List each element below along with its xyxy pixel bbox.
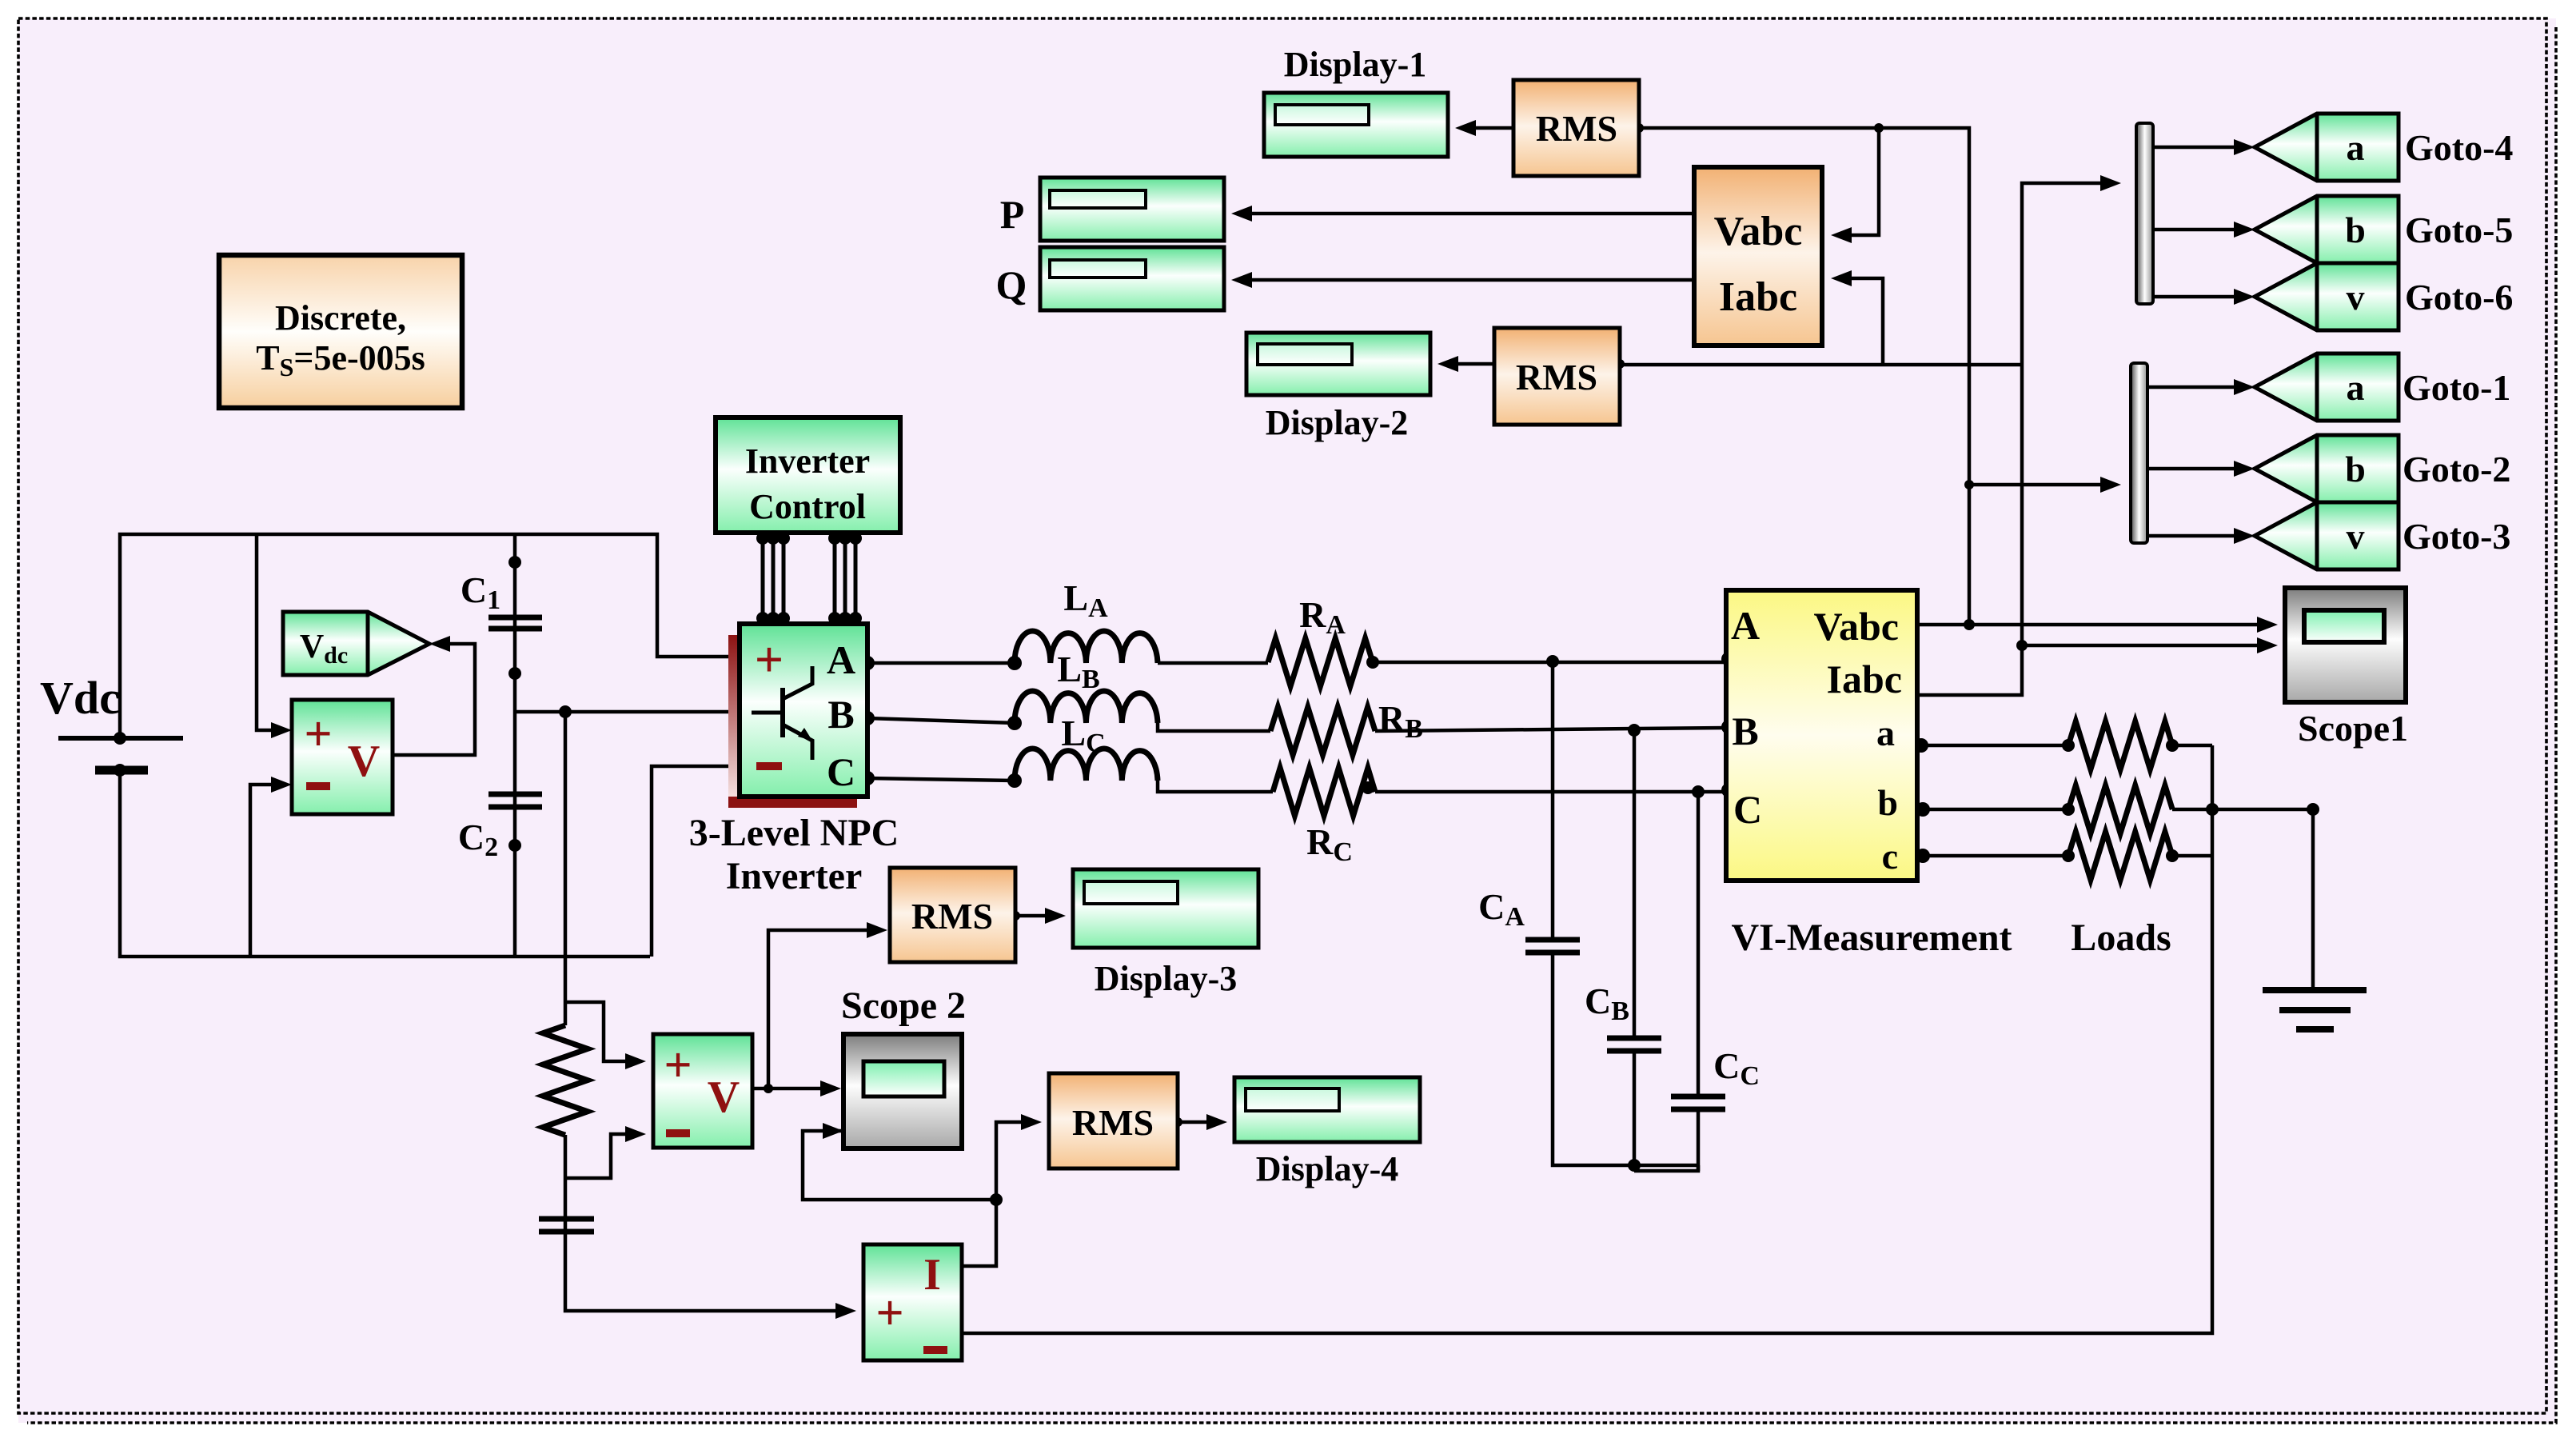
svg-text:Goto-2: Goto-2 <box>2403 449 2510 489</box>
svg-text:a: a <box>2347 367 2365 408</box>
svg-text:b: b <box>2345 210 2366 250</box>
svg-text:Goto-1: Goto-1 <box>2403 367 2510 408</box>
svg-text:P: P <box>1000 192 1025 237</box>
svg-text:Inverter: Inverter <box>726 855 863 897</box>
svg-text:+: + <box>875 1286 903 1340</box>
svg-text:+: + <box>304 707 332 761</box>
svg-text:Display-3: Display-3 <box>1095 959 1237 998</box>
svg-text:I: I <box>923 1250 941 1300</box>
svg-text:Loads: Loads <box>2071 917 2171 959</box>
svg-text:Iabc: Iabc <box>1719 274 1797 320</box>
svg-text:B: B <box>827 692 854 737</box>
svg-text:3-Level NPC: 3-Level NPC <box>689 812 899 854</box>
svg-text:Control: Control <box>749 487 866 526</box>
svg-text:Vabc: Vabc <box>1813 604 1899 649</box>
svg-text:V: V <box>348 737 380 786</box>
svg-text:VI-Measurement: VI-Measurement <box>1731 917 2012 959</box>
svg-text:Display-1: Display-1 <box>1284 45 1426 84</box>
svg-text:b: b <box>1877 782 1898 823</box>
svg-text:RMS: RMS <box>1536 108 1617 149</box>
svg-text:Q: Q <box>996 262 1027 307</box>
svg-text:a: a <box>1876 713 1895 753</box>
svg-text:Discrete,: Discrete, <box>275 298 406 338</box>
svg-text:RMS: RMS <box>911 896 993 937</box>
svg-text:+: + <box>755 631 784 688</box>
svg-text:Iabc: Iabc <box>1827 657 1902 701</box>
svg-text:Display-2: Display-2 <box>1266 403 1408 442</box>
svg-text:C: C <box>827 749 855 794</box>
svg-text:A: A <box>1731 603 1760 648</box>
svg-text:Scope1: Scope1 <box>2298 708 2408 749</box>
svg-text:v: v <box>2347 277 2365 318</box>
svg-text:Goto-3: Goto-3 <box>2403 516 2510 557</box>
svg-text:+: + <box>664 1038 692 1092</box>
svg-text:B: B <box>1732 709 1758 753</box>
svg-text:Goto-4: Goto-4 <box>2405 127 2513 168</box>
svg-text:RMS: RMS <box>1072 1102 1154 1143</box>
svg-text:Goto-5: Goto-5 <box>2405 210 2513 250</box>
svg-text:a: a <box>2347 127 2365 168</box>
svg-text:C: C <box>1733 787 1762 832</box>
svg-text:RMS: RMS <box>1516 357 1597 397</box>
svg-text:A: A <box>827 637 855 682</box>
svg-text:c: c <box>1882 836 1898 877</box>
svg-text:Goto-6: Goto-6 <box>2405 277 2513 318</box>
svg-text:Vabc: Vabc <box>1714 209 1803 254</box>
svg-text:v: v <box>2347 516 2365 557</box>
svg-text:Inverter: Inverter <box>745 441 870 481</box>
svg-text:Display-4: Display-4 <box>1256 1149 1398 1188</box>
svg-text:b: b <box>2345 449 2366 489</box>
svg-text:Vdc: Vdc <box>40 672 120 724</box>
svg-text:V: V <box>708 1073 740 1122</box>
svg-text:Scope 2: Scope 2 <box>841 985 966 1027</box>
